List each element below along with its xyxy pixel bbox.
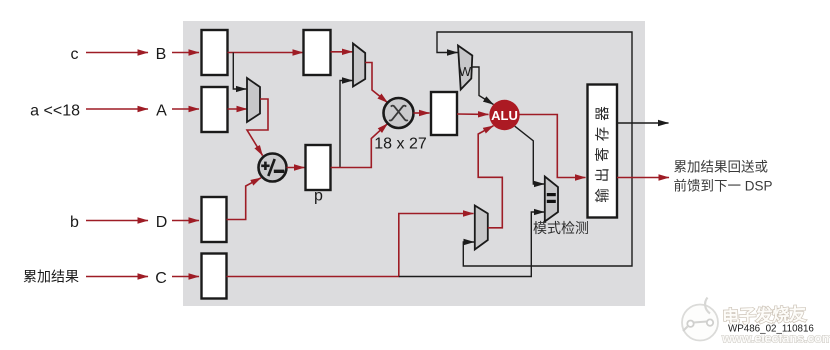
wire output black arrow	[617, 122, 669, 124]
svg-text:b: b	[70, 214, 79, 231]
wire ALU to pattern mux (black)	[515, 126, 545, 184]
multiplier circle	[384, 98, 414, 128]
label 18 x 27	[374, 136, 427, 153]
svg-text:C: C	[155, 270, 167, 287]
wire register p to multiplier	[331, 124, 388, 168]
wire D to register	[172, 220, 199, 222]
register p	[306, 145, 331, 190]
ALU circle	[489, 100, 519, 130]
output register	[588, 85, 618, 218]
wire register M to ALU	[457, 113, 489, 115]
wire C register to C-mux	[227, 214, 474, 277]
register B	[202, 30, 228, 75]
wire accumulate input arrow	[86, 276, 148, 278]
wire W-mux to ALU (black)	[472, 67, 494, 105]
wire p tap to B-mux (black)	[340, 81, 353, 168]
node C	[155, 270, 167, 287]
svg-text:累加结果: 累加结果	[23, 269, 79, 285]
svg-text:B: B	[156, 46, 167, 63]
watermark text elecfans	[722, 304, 807, 327]
wire output red arrow	[617, 177, 669, 179]
label c	[71, 46, 79, 63]
svg-text:A: A	[156, 103, 167, 120]
mux pattern detect	[545, 177, 558, 222]
gray panel	[183, 21, 645, 306]
mux B (before multiplier)	[353, 44, 365, 87]
wire C-mux to ALU	[478, 126, 502, 228]
mux A (after A register)	[247, 78, 260, 122]
svg-text:a <<18: a <<18	[30, 103, 80, 120]
wire c input arrow	[86, 52, 148, 54]
svg-text:18 x 27: 18 x 27	[374, 136, 427, 153]
wire add/sub to register p	[287, 167, 305, 169]
svg-text:W: W	[459, 64, 472, 79]
label output text line1	[674, 160, 769, 175]
svg-text:模式检测: 模式检测	[533, 220, 589, 236]
wire A to register	[172, 108, 199, 110]
watermark logo	[682, 298, 718, 341]
label WP486_02_110816	[728, 324, 814, 335]
wire a input arrow	[86, 108, 148, 110]
wire bottom feedback to C-mux (black)	[463, 123, 632, 266]
register A	[202, 87, 228, 132]
svg-text:WP486_02_110816: WP486_02_110816	[728, 324, 814, 335]
label output text line2	[674, 178, 773, 194]
svg-text:前馈到下一 DSP: 前馈到下一 DSP	[674, 178, 773, 194]
wire A-mux to add/sub	[247, 99, 268, 156]
wire B2 register to B-mux	[331, 51, 353, 53]
svg-text:c: c	[71, 46, 79, 63]
wire C to register	[172, 276, 199, 278]
label p	[314, 188, 323, 205]
svg-text:p: p	[314, 188, 323, 205]
svg-text:ALU: ALU	[491, 108, 518, 123]
wire B-mux to multiplier	[365, 63, 387, 103]
wire B to register	[172, 52, 199, 54]
wire A register to A-mux	[228, 108, 248, 110]
register M	[431, 92, 457, 135]
wire top feedback to W-mux (black)	[437, 32, 632, 123]
wire B register to second B register	[228, 52, 304, 54]
wire b input arrow	[86, 220, 148, 222]
label b	[70, 214, 79, 231]
svg-text:D: D	[156, 214, 168, 231]
mux W	[458, 46, 472, 90]
label a <<18	[30, 103, 80, 120]
adder/subtractor circle	[259, 154, 287, 182]
wire C line to pattern mux (black)	[399, 212, 545, 277]
register C	[202, 254, 227, 299]
label 模式检测	[533, 220, 589, 236]
node D	[156, 214, 168, 231]
label 累加结果	[23, 269, 79, 285]
mux C (accumulator feedback)	[475, 206, 488, 250]
register B2	[304, 30, 331, 75]
node A	[156, 103, 167, 120]
wire D register to add/sub	[227, 178, 262, 220]
svg-text:输出寄存器: 输出寄存器	[594, 100, 612, 203]
watermark url	[721, 331, 830, 346]
wire multiplier to register M	[414, 112, 430, 114]
wire B tap to A-mux (black)	[233, 53, 246, 90]
register D	[202, 197, 227, 242]
svg-text:累加结果回送或: 累加结果回送或	[674, 160, 769, 175]
node B	[156, 46, 167, 63]
wire ALU output to output register	[520, 115, 586, 178]
